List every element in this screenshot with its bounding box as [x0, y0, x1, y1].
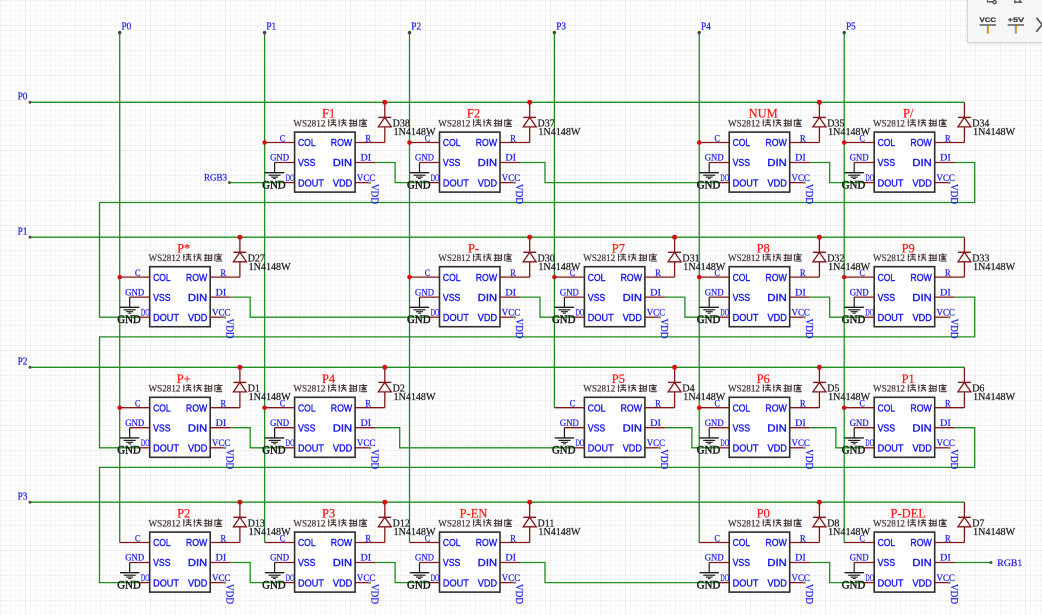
- svg-text:VSS: VSS: [298, 558, 316, 569]
- svg-text:ROW: ROW: [910, 138, 932, 149]
- svg-text:COL: COL: [443, 138, 461, 149]
- svg-text:COL: COL: [298, 138, 316, 149]
- svg-text:DOUT: DOUT: [878, 578, 904, 589]
- junction: diode D4 on row net: [672, 365, 677, 370]
- key switch socket P3 (WS2812): [295, 532, 356, 592]
- value label WS2812 socket name (P2): [149, 519, 223, 530]
- svg-text:DOUT: DOUT: [153, 313, 179, 324]
- ground symbol (P2): [117, 563, 141, 592]
- svg-text:ROW: ROW: [765, 538, 787, 549]
- svg-text:VDD: VDD: [768, 578, 787, 589]
- diode D38 1N4148W: [355, 102, 391, 142]
- key switch socket F2 (WS2812): [440, 132, 501, 192]
- svg-text:VCC: VCC: [980, 17, 997, 24]
- svg-text:DI: DI: [795, 554, 806, 564]
- wire: pin VCC stub of NUM (unconnected): [790, 182, 805, 184]
- svg-text:VSS: VSS: [878, 423, 896, 434]
- junction: diode D5 on row net: [817, 365, 822, 370]
- svg-text:+5V: +5V: [1008, 17, 1025, 24]
- svg-text:R: R: [510, 534, 516, 544]
- svg-text:VDD: VDD: [803, 184, 814, 204]
- junction: P9.COL on bus: [842, 275, 847, 280]
- wire: pin COL of P5 to bus: [554, 407, 584, 409]
- svg-text:GND: GND: [850, 288, 869, 298]
- node: net port dot P0 (left): [29, 101, 32, 104]
- wire: pin VCC stub of P7 (unconnected): [645, 316, 660, 318]
- svg-text:GND: GND: [262, 180, 286, 192]
- svg-text:DIN: DIN: [623, 293, 642, 304]
- svg-text:COL: COL: [733, 538, 751, 549]
- svg-text:VCC: VCC: [937, 308, 955, 318]
- svg-text:DOUT: DOUT: [733, 444, 759, 455]
- svg-text:VSS: VSS: [733, 293, 751, 304]
- svg-text:GND: GND: [552, 445, 576, 457]
- wire: pin VSS of P-EN to ground: [420, 562, 440, 564]
- svg-text:DI: DI: [940, 288, 951, 298]
- ground symbol (NUM): [697, 163, 721, 192]
- svg-text:DOUT: DOUT: [733, 313, 759, 324]
- ground symbol (P-): [407, 297, 431, 326]
- wire: pin DIN stub of P1: [935, 427, 955, 429]
- wire: pin DOUT stub of P+: [140, 447, 150, 449]
- svg-text:DIN: DIN: [333, 158, 352, 169]
- diode D13 1N4148W: [210, 502, 246, 542]
- wire: pin VCC stub of P-EN (unconnected): [500, 582, 515, 584]
- svg-text:VDD: VDD: [913, 578, 932, 589]
- junction: P6.COL on bus: [697, 405, 702, 410]
- svg-text:VDD: VDD: [623, 313, 642, 324]
- wire: horizontal row net P0: [30, 101, 964, 103]
- svg-text:DO: DO: [141, 439, 150, 449]
- wire: pin DOUT stub of P-DEL: [864, 582, 874, 584]
- svg-text:GND: GND: [262, 445, 286, 457]
- wire: pin VSS of P3 to ground: [275, 562, 295, 564]
- UI icon: +5V power flag: [1008, 17, 1025, 34]
- svg-text:DOUT: DOUT: [298, 578, 324, 589]
- svg-text:GND: GND: [842, 580, 866, 592]
- svg-text:WS2812: WS2812: [728, 119, 760, 129]
- svg-text:ROW: ROW: [331, 403, 353, 414]
- svg-text:VDD: VDD: [913, 178, 932, 189]
- wire: pin DOUT stub of P3: [285, 582, 295, 584]
- svg-text:C: C: [280, 400, 285, 410]
- svg-text:C: C: [860, 400, 865, 410]
- svg-text:VDD: VDD: [368, 449, 379, 469]
- junction: diode D37 on row net: [527, 100, 532, 105]
- svg-text:VCC: VCC: [647, 439, 665, 449]
- svg-text:VDD: VDD: [513, 184, 524, 204]
- wire: P*.DIN to P-.DOUT: [230, 297, 429, 317]
- svg-text:DO: DO: [576, 308, 585, 318]
- wire: F2.DIN to NUM.DOUT: [520, 163, 719, 183]
- svg-text:DIN: DIN: [767, 558, 786, 569]
- svg-text:DOUT: DOUT: [298, 178, 324, 189]
- ground symbol (P3): [262, 563, 286, 592]
- svg-text:DOUT: DOUT: [298, 444, 324, 455]
- wire: pin VSS of P1 to ground: [854, 427, 874, 429]
- node: open pin end VCC (F1): [368, 181, 371, 184]
- svg-text:VSS: VSS: [733, 423, 751, 434]
- wire: pin DIN stub of P5: [645, 427, 665, 429]
- wire: pin COL of P3 to bus: [265, 542, 295, 544]
- wire: pin VCC stub of P8 (unconnected): [790, 316, 805, 318]
- svg-text:GND: GND: [705, 154, 724, 164]
- ground symbol (P8): [697, 297, 721, 326]
- node: open pin end VCC (NUM): [803, 181, 806, 184]
- value label WS2812 socket name (P-DEL): [873, 519, 947, 530]
- junction: diode D11 on row net: [527, 500, 532, 505]
- svg-text:COL: COL: [298, 538, 316, 549]
- svg-text:R: R: [800, 400, 806, 410]
- ground symbol (P+): [117, 428, 141, 457]
- svg-text:C: C: [715, 400, 720, 410]
- svg-text:DO: DO: [720, 574, 729, 584]
- svg-text:C: C: [570, 400, 575, 410]
- wire: pin VSS of P* to ground: [130, 296, 150, 298]
- wire: pin VCC stub of P6 (unconnected): [790, 447, 805, 449]
- value label WS2812 socket name (P4): [293, 384, 367, 395]
- svg-text:VCC: VCC: [792, 574, 810, 584]
- wire: pin VSS of P9 to ground: [854, 296, 874, 298]
- svg-text:C: C: [135, 269, 140, 279]
- svg-text:WS2812: WS2812: [149, 385, 181, 395]
- junction: diode D13 on row net: [237, 500, 242, 505]
- wire: pin DIN stub of P0: [790, 562, 810, 564]
- svg-text:WS2812: WS2812: [149, 519, 181, 529]
- svg-text:VDD: VDD: [803, 584, 814, 604]
- diode D35 1N4148W: [790, 102, 826, 142]
- junction: diode D27 on row net: [237, 235, 242, 240]
- svg-text:WS2812: WS2812: [293, 119, 325, 129]
- value label WS2812 socket name (P0): [728, 519, 802, 530]
- svg-text:DO: DO: [865, 574, 874, 584]
- svg-text:C: C: [860, 269, 865, 279]
- svg-text:DOUT: DOUT: [878, 444, 904, 455]
- diode D30 1N4148W: [500, 237, 536, 277]
- svg-text:DI: DI: [795, 154, 806, 164]
- wire: P8.DIN to P9.DOUT: [810, 297, 865, 317]
- svg-text:ROW: ROW: [910, 273, 932, 284]
- diode D6 1N4148W: [935, 367, 971, 407]
- node: open pin end VCC (P5): [658, 446, 661, 449]
- svg-text:DOUT: DOUT: [878, 313, 904, 324]
- svg-text:VDD: VDD: [623, 444, 642, 455]
- svg-text:DOUT: DOUT: [878, 178, 904, 189]
- wire: pin DOUT stub of P/: [864, 182, 874, 184]
- svg-text:ROW: ROW: [910, 538, 932, 549]
- key switch socket P7 (WS2812): [584, 267, 645, 327]
- wire: pin COL of P4 to bus: [265, 407, 295, 409]
- svg-text:VSS: VSS: [878, 558, 896, 569]
- wire: pin VCC stub of P2 (unconnected): [210, 582, 225, 584]
- svg-text:VCC: VCC: [937, 439, 955, 449]
- wire: pin VSS of P7 to ground: [564, 296, 584, 298]
- node: net port dot P3 (left): [29, 501, 32, 504]
- junction: F2.COL on bus: [407, 140, 412, 145]
- svg-text:GND: GND: [125, 419, 144, 429]
- svg-text:P2: P2: [411, 22, 421, 33]
- svg-text:DI: DI: [361, 154, 372, 164]
- wire: pin VCC stub of P- (unconnected): [500, 316, 515, 318]
- wire: vertical bus net P5: [843, 33, 845, 543]
- svg-text:ROW: ROW: [186, 273, 208, 284]
- svg-text:VSS: VSS: [878, 158, 896, 169]
- svg-text:1N4148W: 1N4148W: [973, 127, 1016, 138]
- svg-text:WS2812: WS2812: [873, 519, 905, 529]
- svg-text:VCC: VCC: [212, 439, 230, 449]
- node: open pin end VCC (P6): [803, 446, 806, 449]
- wire: pin COL of NUM to bus: [699, 142, 729, 144]
- svg-text:P4: P4: [701, 22, 711, 33]
- wire: vertical bus net P2: [409, 33, 411, 543]
- wire: pin VCC stub of P* (unconnected): [210, 316, 225, 318]
- svg-text:VDD: VDD: [223, 449, 234, 469]
- wire: vertical bus net P4: [698, 33, 700, 543]
- svg-text:ROW: ROW: [331, 538, 353, 549]
- node: open end of bus P1: [263, 31, 266, 34]
- wire: F1.DIN to F2.DOUT: [375, 163, 429, 183]
- svg-text:DI: DI: [505, 554, 516, 564]
- svg-text:VCC: VCC: [792, 308, 810, 318]
- svg-text:P3: P3: [556, 22, 566, 33]
- wire: P/.DIN to row2 return: [100, 163, 975, 318]
- svg-text:GND: GND: [270, 554, 289, 564]
- value label WS2812 socket name (P5): [583, 384, 657, 395]
- svg-text:DO: DO: [141, 308, 150, 318]
- svg-text:VSS: VSS: [588, 293, 606, 304]
- svg-text:GND: GND: [270, 419, 289, 429]
- svg-text:1N4148W: 1N4148W: [973, 392, 1016, 403]
- wire: pin DOUT stub of P9: [864, 316, 874, 318]
- node: open pin end VCC (P*): [224, 316, 227, 319]
- wire: pin COL of F1 to bus: [265, 142, 295, 144]
- svg-text:C: C: [715, 269, 720, 279]
- svg-text:VCC: VCC: [212, 308, 230, 318]
- svg-text:GND: GND: [697, 180, 721, 192]
- wire: pin DIN stub of P-: [500, 296, 520, 298]
- wire: pin DIN stub of P6: [790, 427, 810, 429]
- svg-text:DIN: DIN: [912, 158, 931, 169]
- key switch socket P2 (WS2812): [150, 532, 211, 592]
- svg-text:VDD: VDD: [333, 178, 352, 189]
- value label WS2812 socket name (P*): [149, 253, 223, 264]
- svg-text:VDD: VDD: [768, 178, 787, 189]
- wire: pin DIN stub of F2: [500, 162, 520, 164]
- wire: pin COL of P-DEL to bus: [844, 542, 874, 544]
- svg-text:VCC: VCC: [647, 308, 665, 318]
- svg-text:ROW: ROW: [476, 538, 498, 549]
- value label WS2812 socket name (P-EN): [438, 519, 512, 530]
- junction: P/.COL on bus: [842, 140, 847, 145]
- svg-text:R: R: [945, 400, 951, 410]
- svg-text:DO: DO: [720, 174, 729, 184]
- svg-text:C: C: [280, 134, 285, 144]
- node: open end of bus P5: [843, 31, 846, 34]
- svg-text:1N4148W: 1N4148W: [538, 527, 581, 538]
- ground symbol (P7): [552, 297, 576, 326]
- svg-text:C: C: [715, 534, 720, 544]
- svg-text:R: R: [221, 534, 227, 544]
- wire: pin DOUT stub of P2: [140, 582, 150, 584]
- svg-text:DO: DO: [286, 574, 295, 584]
- svg-text:DOUT: DOUT: [588, 444, 614, 455]
- wire: P7.DIN to P8.DOUT: [665, 297, 719, 317]
- value label WS2812 socket name (NUM): [728, 119, 802, 130]
- svg-text:VSS: VSS: [298, 158, 316, 169]
- svg-text:ROW: ROW: [765, 403, 787, 414]
- wire: pin DIN stub of P+: [210, 427, 230, 429]
- svg-text:WS2812: WS2812: [728, 254, 760, 264]
- wire: pin VCC stub of P4 (unconnected): [355, 447, 370, 449]
- junction: diode D30 on row net: [527, 235, 532, 240]
- svg-text:WS2812: WS2812: [583, 254, 615, 264]
- svg-text:DI: DI: [650, 288, 661, 298]
- svg-text:P2: P2: [18, 357, 28, 368]
- node: open end of bus P0: [118, 31, 121, 34]
- svg-text:VDD: VDD: [658, 319, 669, 339]
- wire: pin VSS of NUM to ground: [709, 162, 729, 164]
- wire: pin COL of P1 to bus: [844, 407, 874, 409]
- svg-text:COL: COL: [878, 403, 896, 414]
- svg-text:VDD: VDD: [948, 449, 959, 469]
- svg-text:P0: P0: [122, 22, 132, 33]
- svg-text:R: R: [945, 269, 951, 279]
- svg-text:DO: DO: [720, 439, 729, 449]
- svg-text:VDD: VDD: [948, 184, 959, 204]
- svg-text:DO: DO: [865, 308, 874, 318]
- node: open pin end VCC (P2): [224, 581, 227, 584]
- node: open end of bus P3: [553, 31, 556, 34]
- svg-text:1N4148W: 1N4148W: [538, 127, 581, 138]
- svg-text:VCC: VCC: [792, 439, 810, 449]
- value label WS2812 socket name (P6): [728, 384, 802, 395]
- node: open pin end VCC (P7): [658, 316, 661, 319]
- svg-text:R: R: [800, 134, 806, 144]
- svg-text:DIN: DIN: [333, 423, 352, 434]
- wire: pin DIN stub of F1: [355, 162, 375, 164]
- wire: P2.DIN to P3.DOUT: [230, 563, 284, 583]
- value label WS2812 socket name (P7): [583, 253, 657, 264]
- wire: vertical bus net P3: [553, 33, 555, 408]
- wire: pin COL of P9 to bus: [844, 276, 874, 278]
- wire: pin DIN stub of P/: [935, 162, 955, 164]
- svg-text:1N4148W: 1N4148W: [249, 262, 292, 273]
- node: open pin end VCC (P3): [368, 581, 371, 584]
- svg-text:C: C: [135, 400, 140, 410]
- svg-text:DI: DI: [361, 554, 372, 564]
- svg-text:DIN: DIN: [478, 158, 497, 169]
- svg-text:DI: DI: [795, 419, 806, 429]
- svg-text:DIN: DIN: [912, 423, 931, 434]
- svg-text:DI: DI: [361, 419, 372, 429]
- svg-text:C: C: [135, 534, 140, 544]
- svg-text:COL: COL: [878, 273, 896, 284]
- svg-text:R: R: [510, 134, 516, 144]
- svg-text:VSS: VSS: [443, 558, 461, 569]
- junction: P1.COL on bus: [842, 405, 847, 410]
- svg-text:VSS: VSS: [153, 558, 171, 569]
- svg-text:VCC: VCC: [502, 174, 520, 184]
- svg-text:VSS: VSS: [878, 293, 896, 304]
- svg-text:WS2812: WS2812: [728, 519, 760, 529]
- wire: pin DOUT stub of P0: [719, 582, 729, 584]
- key switch socket P+ (WS2812): [150, 397, 211, 457]
- UI icon: panel expand chevron: [1036, 18, 1042, 32]
- svg-text:DO: DO: [865, 439, 874, 449]
- junction: diode D38 on row net: [382, 100, 387, 105]
- svg-text:ROW: ROW: [765, 138, 787, 149]
- svg-text:VSS: VSS: [153, 423, 171, 434]
- svg-text:VDD: VDD: [333, 444, 352, 455]
- node: open end of bus P4: [698, 31, 701, 34]
- svg-text:GND: GND: [415, 154, 434, 164]
- diode D2 1N4148W: [355, 367, 391, 407]
- ground symbol (P1): [842, 428, 866, 457]
- svg-text:VSS: VSS: [443, 158, 461, 169]
- wire: pin VCC stub of P9 (unconnected): [935, 316, 950, 318]
- svg-text:VDD: VDD: [803, 319, 814, 339]
- node: open pin end VCC (P+): [224, 446, 227, 449]
- wire: pin DOUT stub of P8: [719, 316, 729, 318]
- svg-text:GND: GND: [407, 580, 431, 592]
- svg-text:DOUT: DOUT: [153, 578, 179, 589]
- svg-text:DI: DI: [216, 419, 227, 429]
- wire: P-EN.DIN to P0.DOUT: [520, 563, 719, 583]
- svg-text:DO: DO: [286, 174, 295, 184]
- svg-text:GND: GND: [125, 288, 144, 298]
- svg-text:DIN: DIN: [478, 558, 497, 569]
- svg-text:P0: P0: [18, 92, 28, 103]
- svg-text:COL: COL: [153, 403, 171, 414]
- svg-text:R: R: [365, 534, 371, 544]
- svg-text:VDD: VDD: [913, 313, 932, 324]
- wire: NUM.DIN to P/.DOUT: [810, 163, 865, 183]
- wire: P4.DIN to P5.DOUT: [375, 428, 574, 448]
- svg-text:VDD: VDD: [768, 313, 787, 324]
- svg-text:P5: P5: [846, 22, 856, 33]
- wire: pin VSS of F2 to ground: [420, 162, 440, 164]
- svg-text:WS2812: WS2812: [728, 385, 760, 395]
- wire: horizontal row net P1: [30, 236, 964, 238]
- svg-text:DOUT: DOUT: [733, 178, 759, 189]
- svg-text:ROW: ROW: [186, 538, 208, 549]
- svg-text:C: C: [860, 534, 865, 544]
- node: net port dot P2 (left): [29, 366, 32, 369]
- wire: pin DIN stub of P-DEL: [935, 562, 955, 564]
- ground symbol (P-EN): [407, 563, 431, 592]
- wire: pin DIN stub of P3: [355, 562, 375, 564]
- svg-text:DI: DI: [940, 554, 951, 564]
- wire: pin DOUT stub of NUM: [719, 182, 729, 184]
- svg-text:VCC: VCC: [937, 174, 955, 184]
- svg-text:ROW: ROW: [476, 138, 498, 149]
- svg-text:C: C: [715, 134, 720, 144]
- wire: pin VSS of P4 to ground: [275, 427, 295, 429]
- svg-text:DO: DO: [286, 439, 295, 449]
- wire: pin DIN stub of P-EN: [500, 562, 520, 564]
- svg-text:GND: GND: [705, 288, 724, 298]
- svg-text:DO: DO: [720, 308, 729, 318]
- wire: pin VSS of P+ to ground: [130, 427, 150, 429]
- junction: diode D31 on row net: [672, 235, 677, 240]
- wire: pin COL of F2 to bus: [410, 142, 440, 144]
- wire: pin COL of P+ to bus: [120, 407, 150, 409]
- key switch socket P6 (WS2812): [729, 397, 790, 457]
- wire: pin VCC stub of P1 (unconnected): [935, 447, 950, 449]
- wire: pin VCC stub of P0 (unconnected): [790, 582, 805, 584]
- wire: pin DOUT stub of F1: [285, 182, 295, 184]
- svg-text:GND: GND: [850, 154, 869, 164]
